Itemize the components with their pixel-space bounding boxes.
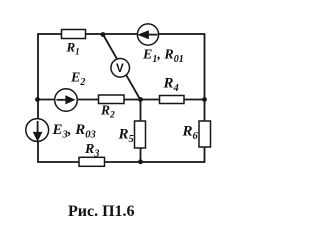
svg-text:E1, R01: E1, R01 <box>142 48 184 66</box>
svg-text:R3: R3 <box>84 142 99 160</box>
svg-text:Рис. П1.6: Рис. П1.6 <box>68 203 135 220</box>
svg-text:E3, R03: E3, R03 <box>52 122 96 141</box>
svg-text:V: V <box>116 63 124 75</box>
svg-text:R2: R2 <box>100 103 115 121</box>
svg-text:R5: R5 <box>118 127 134 146</box>
svg-text:E2: E2 <box>70 71 85 89</box>
svg-text:R4: R4 <box>163 76 179 95</box>
svg-text:R6: R6 <box>182 124 199 143</box>
svg-text:R1: R1 <box>66 40 80 57</box>
